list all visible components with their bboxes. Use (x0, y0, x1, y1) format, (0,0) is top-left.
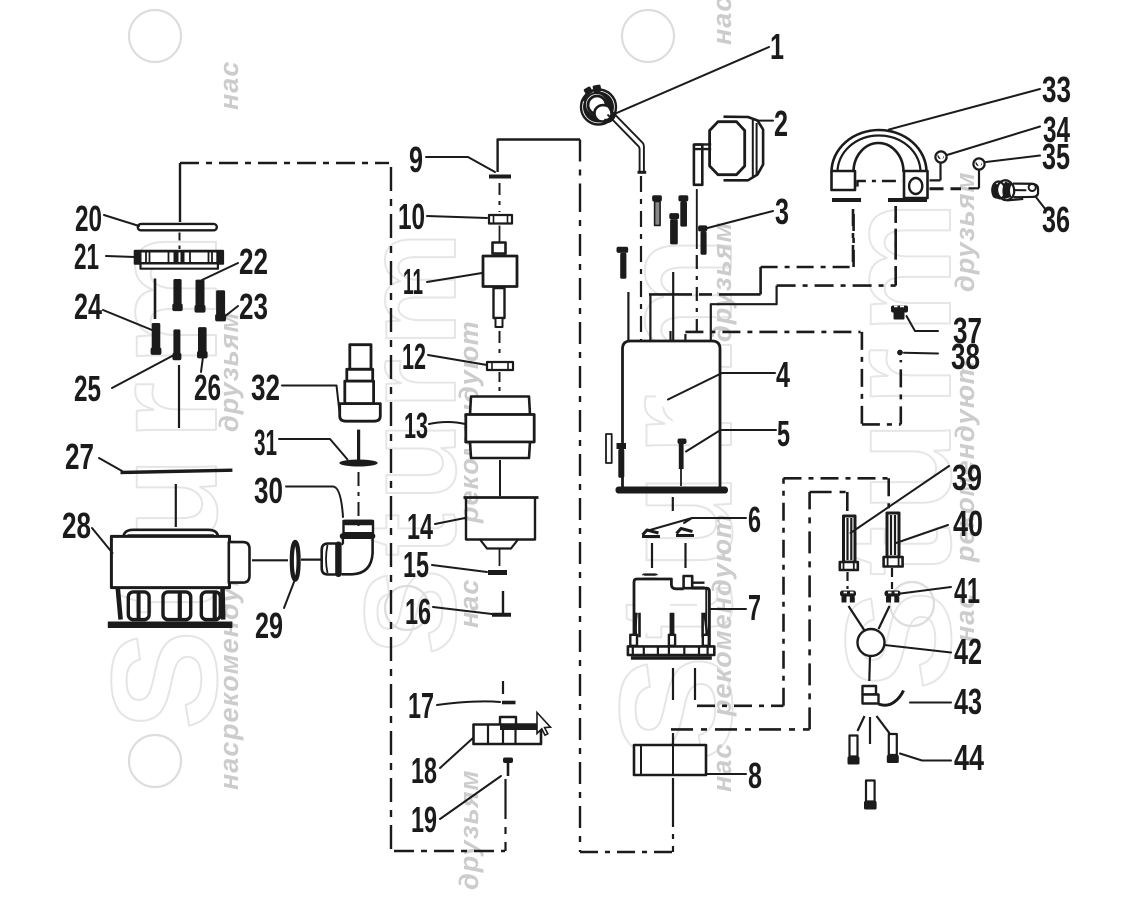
route D solid: y294 step (649, 267, 761, 294)
leader 14 (435, 518, 465, 524)
leader 30 (286, 487, 343, 518)
part 30 elbow inlet collar (322, 544, 336, 575)
screw at motor left lower (617, 443, 627, 478)
link 42-43 (868, 657, 871, 682)
part 44 screw left (848, 736, 860, 765)
dash from foot to 35 (930, 187, 962, 190)
screw E (172, 329, 181, 360)
screw 22 row: A (173, 279, 182, 311)
part 41 wing nut right (885, 591, 901, 603)
part 1 cable tube (608, 111, 644, 172)
dash-dot between handle feet (858, 181, 903, 187)
part 32 hose adapter (340, 345, 381, 422)
part 8 box (634, 745, 706, 775)
leader 12 (428, 355, 487, 365)
leader 40 (896, 525, 948, 543)
part 41 wing nut left (840, 591, 856, 603)
svg-text:17: 17 (408, 685, 434, 726)
watermark circle bottom-left (129, 735, 181, 787)
leader 20 (104, 215, 139, 226)
svg-text:18: 18 (411, 750, 437, 791)
leader 19 (440, 776, 501, 819)
part 30 collar ring (335, 542, 341, 578)
part 38 pin dot (897, 350, 903, 356)
leader 10 (427, 216, 487, 218)
screw B (195, 280, 206, 313)
svg-text:25: 25 (74, 368, 101, 409)
svg-text:39: 39 (952, 457, 982, 498)
part 18 impeller (474, 717, 542, 744)
part 42 ball (858, 629, 885, 656)
svg-text:38: 38 (951, 336, 980, 377)
part 19 screw (503, 758, 513, 777)
screw C (215, 290, 226, 321)
part 13 stator (466, 397, 534, 459)
axis line 29 to elbow (301, 558, 321, 560)
svg-text:14: 14 (407, 506, 433, 547)
svg-text:нас: нас (707, 0, 737, 45)
part 31 plug disc (339, 460, 377, 467)
part 30 top pipe (343, 520, 374, 534)
leader 25 (112, 355, 174, 388)
leader 39 (851, 466, 950, 533)
wire above motor x673 (672, 272, 674, 340)
svg-text:33: 33 (1042, 69, 1071, 110)
dash wire x697 to motor (696, 255, 698, 340)
svg-text:нас: нас (707, 743, 737, 792)
part 28 pump base lid (124, 530, 219, 537)
leader 2 (757, 120, 773, 122)
svg-text:9: 9 (409, 139, 423, 180)
leader 4 (668, 373, 775, 400)
short stub x670 (669, 331, 671, 340)
lines 43 to screws 44 (858, 716, 891, 744)
dash-dot below right foot (894, 206, 897, 283)
svg-text:16: 16 (405, 591, 431, 632)
svg-text:нас: нас (214, 61, 244, 110)
leader 1 (612, 47, 769, 115)
part 34 screw (930, 151, 947, 180)
svg-text:5: 5 (777, 413, 790, 454)
part 39 bolt (840, 516, 858, 570)
part 30 elbow body (342, 539, 373, 574)
svg-text:26: 26 (194, 367, 221, 408)
leader 41 (901, 587, 952, 594)
part 15 seal disc (488, 570, 507, 575)
centerline dash above 17 (502, 681, 504, 694)
part 7 pump housing (628, 575, 714, 658)
leader 7 (710, 608, 747, 610)
leader 15 (432, 565, 487, 572)
left assembly parts 20-32 (108, 224, 381, 625)
svg-text:15: 15 (403, 544, 429, 585)
part 33 handle arch (832, 130, 928, 200)
short stub x685 (684, 334, 686, 340)
part 11 rotor (483, 243, 517, 328)
part 9 tick (489, 175, 511, 179)
wire above motor x650 with corner (649, 294, 651, 340)
center shaft column parts 9-19 (464, 177, 542, 777)
svg-text:нас: нас (214, 741, 244, 790)
leader 36 (1036, 197, 1047, 211)
svg-text:41: 41 (954, 570, 980, 611)
dash 39 to 41 (846, 572, 848, 589)
part 3 screw right (698, 225, 707, 254)
route C solid steps (711, 286, 777, 340)
leader 37 (907, 316, 939, 331)
part 4 bottom flange (616, 487, 729, 494)
vertical below part 19 to bottom boundary (504, 779, 506, 851)
leader 16 (433, 607, 492, 614)
svg-text:31: 31 (254, 422, 277, 463)
svg-text:1: 1 (770, 26, 784, 67)
part 28 outlet nozzle (229, 542, 250, 583)
part 21 slotted ring (135, 251, 223, 269)
svg-text:42: 42 (954, 631, 982, 672)
screw F (197, 327, 208, 358)
leader 43 (910, 702, 951, 704)
part 28 skirt legs (118, 588, 121, 619)
part 2 float switch body (710, 117, 764, 181)
part 44 screw right (887, 734, 899, 763)
part 3 screw second (669, 213, 679, 244)
dash-dot frame top-left horizontal (180, 162, 389, 164)
part 12 ring (487, 362, 513, 370)
svg-text:24: 24 (74, 286, 102, 327)
svg-text:35: 35 (1042, 136, 1070, 177)
link 13-14 (499, 460, 501, 496)
right assembly parts 33-44 (832, 130, 1040, 810)
part 1 cable gland knob (581, 84, 616, 124)
lines nuts to circle 42 (849, 606, 890, 631)
axis line nozzle to 29 (252, 559, 288, 561)
centerline below screws (178, 365, 180, 428)
leader 38 (904, 352, 938, 355)
part 44 screw bottom (864, 781, 877, 810)
svg-text:30: 30 (254, 470, 283, 511)
leader 13 (429, 422, 465, 424)
svg-text:36: 36 (1042, 199, 1070, 240)
svg-text:13: 13 (404, 405, 428, 446)
svg-text:2: 2 (774, 103, 788, 144)
svg-text:12: 12 (402, 336, 426, 377)
part 37 screw (891, 306, 908, 319)
part 16 pin (492, 591, 511, 615)
svg-text:32: 32 (251, 367, 280, 408)
leader 42 (885, 645, 952, 653)
centerline dash 12-13 (499, 372, 501, 393)
dash-dot bottom boundary right span (580, 851, 673, 853)
leader 31 (279, 439, 348, 460)
center column top boundary (498, 140, 580, 173)
float-switch cable centerline dash (640, 176, 642, 340)
dash-dot right boundary of center column (579, 140, 581, 853)
watermark circle mid-right (890, 582, 934, 626)
part 3 screw third (678, 195, 688, 226)
leader 32 (282, 386, 340, 413)
leader 44 (900, 754, 951, 761)
dash-dot left boundary of center column (390, 167, 392, 851)
part 8 centerline dash (672, 733, 674, 852)
leader 22 (202, 263, 238, 280)
dash-dot bottom boundary left span (394, 850, 505, 852)
svg-text:4: 4 (776, 354, 790, 395)
part 28 base flange (108, 622, 233, 629)
dash 40 to 41 (891, 568, 893, 589)
leader 6 (650, 518, 746, 530)
screw D (151, 323, 162, 355)
centerline dash 20-21 (179, 233, 181, 250)
screw left of motor (617, 247, 629, 279)
wire from frame down to plate 20 (179, 163, 181, 222)
part 28 windows (128, 592, 220, 620)
svg-text:6: 6 (748, 499, 761, 540)
svg-text:21: 21 (74, 236, 99, 277)
part 5 screw inside motor (678, 439, 687, 487)
leader 9 (426, 157, 495, 172)
svg-text:29: 29 (255, 605, 283, 646)
svg-text:7: 7 (748, 587, 761, 628)
svg-text:27: 27 (65, 436, 94, 477)
center assembly parts 1-8 (581, 84, 763, 775)
route C dash to handle right foot (777, 206, 896, 286)
route E dash-dot to parts 37-38 (685, 332, 900, 425)
centerline dash 11-12 (499, 331, 501, 359)
part 17 key (502, 701, 516, 705)
svg-text:3: 3 (775, 191, 789, 232)
svg-text:8: 8 (748, 755, 762, 796)
route D dash-dot to handle left foot (761, 209, 854, 267)
watermark layer (80, 0, 982, 890)
svg-text:22: 22 (239, 241, 268, 282)
leader 8 (707, 773, 747, 775)
leader 27 (99, 458, 122, 471)
svg-text:друзьям: друзьям (454, 769, 484, 890)
dash-dot below left foot (852, 209, 855, 267)
leader 24 (103, 310, 152, 330)
svg-text:40: 40 (953, 503, 983, 544)
svg-text:рекомендуют: рекомендуют (707, 513, 737, 717)
watermark circle top-left (129, 10, 181, 62)
leader 28 (92, 528, 113, 553)
leader 34 (947, 127, 1040, 156)
wire from part2 bracket down x697 (696, 189, 698, 249)
mouse cursor (537, 713, 551, 736)
leader 26 (201, 357, 203, 372)
svg-text:19: 19 (411, 799, 437, 840)
part 43 clamp (863, 686, 904, 705)
link 27-28 (175, 484, 177, 527)
part 29 gasket (292, 542, 299, 580)
link flange to part 6 (672, 497, 674, 511)
links clips to part 7 (652, 543, 686, 568)
route Q inner dash to bolts (671, 492, 847, 729)
svg-text:11: 11 (403, 261, 423, 302)
part 28 body (111, 536, 229, 587)
leader 3 (708, 211, 774, 228)
part 20 plate (138, 224, 217, 230)
svg-text:43: 43 (954, 681, 982, 722)
pin above screws (154, 279, 157, 320)
part 35 screw (969, 158, 985, 188)
part 31 stem (357, 430, 360, 460)
part 30 flange (340, 533, 376, 539)
wire above motor x628 (627, 292, 629, 340)
route P outer dash to bolts (697, 478, 889, 706)
leader 33 (889, 89, 1040, 130)
part 6 clips (642, 529, 694, 537)
centerline dash 9-10 (499, 183, 501, 212)
watermark circle top-center (622, 10, 674, 62)
diagram layer (180, 140, 902, 853)
svg-text:10: 10 (398, 196, 425, 237)
part 2 bracket (694, 144, 711, 184)
part 4 motor housing (623, 341, 721, 487)
part 40 bolt (884, 513, 903, 567)
svg-text:44: 44 (954, 737, 984, 778)
leader 35 (986, 156, 1040, 163)
leader 18 (440, 738, 473, 768)
leader lines (92, 47, 1046, 819)
part 36 cable clip (989, 176, 1039, 206)
part 14 bearing cover (464, 498, 539, 567)
thin pin at motor left (606, 434, 612, 463)
leader 11 (427, 273, 482, 282)
leader 21 (106, 256, 135, 257)
part 3 screw with gray shaft (652, 195, 662, 225)
leader 29 (284, 582, 294, 608)
leader 23 (224, 306, 238, 317)
dash centerline 31-30 (358, 472, 360, 530)
svg-text:28: 28 (62, 505, 91, 546)
leader 17 (437, 701, 500, 705)
link 10-11 (499, 226, 501, 244)
leader 5 (686, 430, 776, 452)
svg-text:нас: нас (454, 579, 484, 628)
svg-text:20: 20 (75, 198, 102, 239)
watermark circle mid-left (385, 586, 429, 630)
part 10 spacer (489, 215, 512, 224)
svg-text:23: 23 (239, 286, 268, 327)
part 27 seal bar (121, 470, 233, 472)
stub verticals below part 7 (673, 668, 695, 700)
